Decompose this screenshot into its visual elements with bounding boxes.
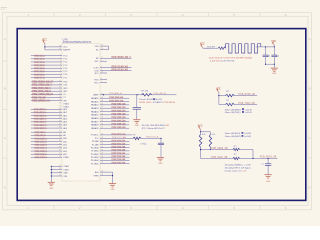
- svg-text:CLKI: CLKI: [94, 70, 99, 72]
- svg-text:2: 2: [101, 81, 102, 83]
- svg-text:AD3: AD3: [63, 117, 67, 120]
- svg-text:EA/VPP: EA/VPP: [63, 49, 71, 52]
- svg-text:INT1: INT1: [63, 91, 67, 93]
- power VCC: [42, 40, 47, 50]
- svg-text:INT0: INT0: [63, 88, 67, 90]
- svg-text:PCB_AD1_A: PCB_AD1_A: [34, 111, 47, 114]
- svg-text:P2.3/A11: P2.3/A11: [91, 150, 99, 153]
- svg-text:PCB_14_A: PCB_14_A: [34, 67, 45, 70]
- svg-text:21: 21: [101, 140, 103, 142]
- svg-text:B: B: [309, 87, 311, 91]
- wire stub TST0: [94, 78, 107, 81]
- svg-text:PCB_PSN_A: PCB_PSN_A: [35, 156, 48, 159]
- wire PA9: [91, 126, 129, 130]
- svg-text:P1.2: P1.2: [63, 62, 67, 64]
- wire P1.2: [31, 61, 67, 64]
- svg-text:VCC: VCC: [200, 44, 205, 46]
- svg-text:AREF: AREF: [94, 94, 100, 97]
- svg-text:36: 36: [59, 120, 61, 122]
- svg-text:L=1149: L=1149: [244, 136, 252, 138]
- svg-text:P2.4/A12: P2.4/A12: [91, 153, 99, 156]
- svg-text:PA3/AD3: PA3/AD3: [91, 107, 99, 110]
- wire A9: [31, 134, 66, 137]
- svg-text:PCB_CLK0_AB: PCB_CLK0_AB: [112, 65, 129, 68]
- wire A15: [31, 153, 67, 156]
- resistor R0 small: [205, 47, 226, 50]
- svg-text:PCB_16_A: PCB_16_A: [34, 73, 45, 76]
- svg-text:AD2: AD2: [63, 114, 67, 117]
- svg-text:PCB_P23_AB: PCB_P23_AB: [112, 149, 126, 152]
- svg-text:PCB_AD6_A: PCB_AD6_A: [34, 127, 47, 130]
- svg-text:PCB_CLK1_AB: PCB_CLK1_AB: [112, 68, 129, 71]
- svg-text:AD1: AD1: [63, 111, 67, 114]
- svg-text:10k 10R 10kR NPN S805 x2R: 10k 10R 10kR NPN S805 x2R: [142, 125, 170, 127]
- node note2: [142, 125, 170, 130]
- svg-text:PCB_15_A: PCB_15_A: [34, 70, 45, 73]
- svg-text:PCB_WRD0_AB: PCB_WRD0_AB: [32, 99, 50, 102]
- svg-text:104: 104: [267, 56, 270, 58]
- wire CLKO: [93, 65, 131, 69]
- svg-text:30: 30: [101, 171, 103, 173]
- svg-text:VCC: VCC: [216, 88, 221, 90]
- wire stub NC2: [95, 72, 107, 75]
- svg-text:21: 21: [59, 131, 61, 133]
- svg-text:PCB_AD5_A: PCB_AD5_A: [34, 124, 47, 127]
- svg-text:T0: T0: [63, 94, 65, 96]
- svg-text:2.2uF 25V 0.1uF X7R 5%: 2.2uF 25V 0.1uF X7R 5%: [210, 61, 235, 63]
- svg-text:VCC: VCC: [271, 41, 276, 43]
- svg-text:P1.0: P1.0: [63, 55, 67, 57]
- wire SDA: [200, 147, 233, 150]
- svg-text:3: 3: [60, 61, 61, 63]
- svg-text:PCB_AD4_A: PCB_AD4_A: [34, 121, 47, 124]
- svg-text:VCC: VCC: [198, 125, 203, 127]
- wire PSEN: [93, 172, 113, 183]
- svg-text:10: 10: [59, 80, 61, 82]
- svg-text:33: 33: [101, 120, 103, 122]
- wire SCL: [201, 156, 233, 159]
- svg-text:30: 30: [101, 48, 103, 50]
- svg-text:25: 25: [59, 143, 61, 145]
- svg-text:23: 23: [101, 137, 103, 139]
- wire PA1: [91, 99, 129, 103]
- svg-text:PA9/AD9: PA9/AD9: [91, 127, 99, 130]
- wire A14: [31, 150, 67, 153]
- wire A13: [31, 146, 67, 149]
- svg-text:U?A: U?A: [63, 38, 68, 42]
- svg-text:1: 1: [60, 54, 61, 56]
- resistor R5: [233, 146, 253, 159]
- wire ALE: [95, 171, 112, 174]
- power VCC: [198, 125, 211, 134]
- svg-text:35: 35: [59, 117, 61, 119]
- svg-text:VCC: VCC: [63, 47, 68, 49]
- wire: [265, 64, 275, 68]
- svg-text:32: 32: [101, 123, 103, 125]
- svg-text:PCB_A15_A: PCB_A15_A: [35, 153, 48, 156]
- svg-text:9: 9: [101, 60, 102, 62]
- svg-text:PA7/AD7: PA7/AD7: [91, 120, 99, 123]
- svg-text:PCB_13_A: PCB_13_A: [34, 64, 45, 67]
- capacitor C5: [140, 138, 164, 157]
- svg-text:GND: GND: [49, 188, 54, 190]
- svg-text:PCB_AD3_A: PCB_AD3_A: [34, 117, 47, 120]
- svg-text:38: 38: [59, 127, 61, 129]
- svg-text:PCB_T0_AB: PCB_T0_AB: [32, 96, 46, 99]
- wire: [256, 46, 275, 47]
- svg-text:PCB_SCL0_AB: PCB_SCL0_AB: [211, 156, 228, 159]
- wire P2.7: [91, 161, 130, 165]
- wire P2.4: [91, 152, 130, 156]
- wire P0.2: [31, 114, 67, 117]
- svg-text:GND: GND: [158, 163, 163, 165]
- svg-text:13: 13: [59, 90, 61, 92]
- svg-text:A13: A13: [63, 147, 66, 150]
- svg-text:PC0/SCL: PC0/SCL: [91, 135, 99, 137]
- svg-text:P1.6: P1.6: [63, 74, 67, 76]
- wire P2.6: [91, 158, 130, 162]
- wire P3.2: [31, 87, 68, 90]
- wire P3.5: [31, 96, 66, 99]
- svg-text:P2.6/A14: P2.6/A14: [91, 159, 99, 162]
- svg-text:PA8/AD8: PA8/AD8: [91, 124, 99, 127]
- svg-text:PCB_PC1_AB: PCB_PC1_AB: [112, 136, 126, 139]
- svg-text:8: 8: [60, 76, 61, 78]
- wire P1.3: [31, 64, 67, 67]
- svg-text:27: 27: [101, 159, 103, 161]
- svg-text:A12: A12: [63, 144, 66, 147]
- svg-text:31: 31: [101, 127, 103, 129]
- svg-text:22: 22: [101, 143, 103, 145]
- node LED note: [139, 98, 175, 104]
- wire P0.4: [31, 120, 67, 123]
- capacitor C1: [263, 47, 270, 64]
- svg-text:PCB_PA9_AB: PCB_PA9_AB: [112, 126, 126, 129]
- svg-text:10mm LED(YEL): 10mm LED(YEL): [225, 112, 241, 114]
- svg-text:4.7k: 4.7k: [212, 134, 216, 136]
- wire stub TST1: [94, 81, 107, 84]
- wire PA0: [91, 96, 129, 100]
- capacitor C4: [133, 95, 141, 120]
- svg-text:A9: A9: [63, 134, 65, 137]
- wire P0.6: [31, 127, 67, 130]
- svg-text:GND: GND: [63, 173, 68, 175]
- svg-text:PCB_A9_A: PCB_A9_A: [35, 134, 47, 137]
- wire P1.5: [31, 70, 67, 73]
- svg-text:4: 4: [60, 64, 61, 66]
- svg-text:4: 4: [101, 66, 102, 68]
- node gap pins: [59, 102, 69, 108]
- wire A10: [31, 137, 67, 140]
- svg-text:PCB_INT1_AB_Z: PCB_INT1_AB_Z: [32, 90, 51, 93]
- wire RD: [96, 56, 132, 60]
- svg-text:22: 22: [101, 133, 103, 135]
- resistor R1: [219, 91, 257, 97]
- svg-text:L=1149: L=1149: [245, 109, 253, 111]
- svg-text:11: 11: [59, 83, 61, 85]
- wire A16: [31, 156, 69, 159]
- svg-text:23: 23: [101, 146, 103, 148]
- svg-text:PCB_A8_A: PCB_A8_A: [35, 131, 47, 134]
- svg-text:P2.5/A13: P2.5/A13: [91, 156, 99, 159]
- svg-text:TST1: TST1: [94, 82, 99, 84]
- svg-text:PA6/AD6: PA6/AD6: [91, 117, 99, 120]
- wire P2.3: [91, 149, 130, 153]
- svg-text:10mm LED(WHT): 10mm LED(WHT): [225, 136, 242, 138]
- svg-text:24: 24: [101, 149, 103, 151]
- resistor FB meander: [226, 44, 261, 53]
- svg-text:PCB_11_A: PCB_11_A: [34, 58, 45, 61]
- svg-text:PA0/AD0: PA0/AD0: [91, 97, 99, 100]
- wire P1.4: [31, 67, 67, 70]
- resistor R4: [209, 134, 215, 150]
- svg-text:104: 104: [276, 56, 279, 58]
- wire A8: [31, 131, 66, 134]
- svg-text:GND: GND: [266, 181, 271, 183]
- svg-text:22: 22: [59, 134, 61, 136]
- svg-text:A11: A11: [63, 140, 66, 143]
- wire P0.5: [31, 124, 67, 127]
- ground: [133, 120, 140, 128]
- svg-text:29: 29: [101, 72, 103, 74]
- svg-text:40: 40: [59, 45, 61, 47]
- svg-text:34: 34: [59, 114, 61, 116]
- svg-text:PCB_AD0_A: PCB_AD0_A: [34, 108, 47, 111]
- node LED note5: [225, 132, 252, 138]
- ground: [271, 68, 278, 75]
- ground: [48, 182, 55, 190]
- wire P3.3: [31, 90, 68, 93]
- svg-text:29: 29: [59, 156, 61, 158]
- svg-text:36: 36: [101, 110, 103, 112]
- svg-text:VDD: VDD: [95, 46, 100, 48]
- svg-text:14: 14: [59, 93, 61, 95]
- power VCC: [200, 44, 210, 49]
- svg-text:10mm LED(BLU): 10mm LED(BLU): [225, 133, 241, 135]
- svg-text:23: 23: [59, 137, 61, 139]
- wire P2.0: [92, 139, 130, 143]
- svg-text:XTAL2: XTAL2: [63, 165, 69, 168]
- svg-text:P1.4: P1.4: [63, 68, 67, 70]
- svg-text:PA4/AD4: PA4/AD4: [91, 110, 99, 113]
- svg-text:PCB_P26_AB: PCB_P26_AB: [112, 158, 126, 161]
- svg-text:XTAL2: XTAL2: [63, 103, 69, 106]
- svg-text:PCB_P21_AB: PCB_P21_AB: [112, 142, 126, 145]
- svg-text:AD6: AD6: [63, 127, 67, 130]
- svg-text:NC2: NC2: [95, 73, 99, 75]
- svg-text:32: 32: [59, 108, 61, 110]
- svg-text:24: 24: [59, 140, 61, 142]
- capacitor C3: [261, 159, 271, 175]
- svg-text:5: 5: [101, 69, 102, 71]
- svg-text:PCB_PA6_AB: PCB_PA6_AB: [112, 116, 126, 119]
- svg-text:34: 34: [101, 117, 103, 119]
- wire P1.7: [31, 76, 67, 79]
- svg-text:P1.7: P1.7: [63, 77, 67, 79]
- svg-text:VCC: VCC: [42, 40, 47, 42]
- svg-text:P2.0/A8: P2.0/A8: [92, 140, 99, 143]
- wire PA5: [91, 113, 129, 117]
- wire: [45, 48, 71, 51]
- svg-text:PCB_CLK_A: PCB_CLK_A: [146, 135, 159, 138]
- wire PA7: [91, 119, 129, 123]
- ground: [265, 175, 272, 183]
- svg-text:C?: C?: [261, 164, 263, 166]
- wire stub NC: [96, 48, 107, 51]
- svg-text:5: 5: [60, 67, 61, 69]
- wire P1.0: [31, 54, 67, 57]
- svg-text:PCB_RXD0_AB: PCB_RXD0_AB: [239, 93, 256, 96]
- svg-text:18: 18: [59, 168, 61, 170]
- svg-text:PCB_AD2_A: PCB_AD2_A: [34, 114, 47, 117]
- svg-text:4.7k: 4.7k: [202, 134, 206, 136]
- wire P3.0: [31, 80, 68, 83]
- svg-text:39: 39: [101, 45, 103, 47]
- wire P3.4: [31, 93, 66, 96]
- svg-text:A14: A14: [63, 150, 66, 153]
- svg-text:PCB_PA2_AB: PCB_PA2_AB: [112, 103, 126, 106]
- svg-text:PCB_ARF_A: PCB_ARF_A: [109, 92, 122, 95]
- svg-text:P2.2/A10: P2.2/A10: [91, 146, 99, 149]
- wire stub VDD: [95, 45, 107, 48]
- svg-text:A8: A8: [63, 131, 65, 134]
- svg-text:P2.7/A15: P2.7/A15: [91, 162, 99, 165]
- wire PA6: [91, 116, 129, 120]
- svg-text:B: B: [4, 87, 6, 91]
- svg-text:PCB_P20_AB: PCB_P20_AB: [112, 139, 126, 142]
- IC U1 microcontroller: [62, 38, 100, 181]
- wire A12: [31, 143, 67, 146]
- wire GND trunk left: [51, 165, 69, 182]
- svg-text:10k pullup SDA/SCL + 1.5nF: 10k pullup SDA/SCL + 1.5nF: [225, 163, 252, 166]
- svg-text:C? 30p: C? 30p: [140, 143, 146, 145]
- svg-text:NOTE: LED+- POLARITY PCB SILK: NOTE: LED+- POLARITY PCB SILK A: [139, 101, 175, 104]
- svg-text:CLKO: CLKO: [93, 67, 99, 69]
- resistor R3: [199, 134, 205, 159]
- wire PA3: [91, 106, 129, 110]
- node note4: [225, 163, 252, 172]
- svg-text:PCB_A12_A: PCB_A12_A: [35, 144, 48, 147]
- wire AREF net: [94, 92, 177, 96]
- svg-text:PCB_PA5_AB: PCB_PA5_AB: [112, 113, 126, 116]
- wire stub RST: [95, 60, 107, 63]
- svg-text:PA1/AD1: PA1/AD1: [91, 100, 99, 103]
- wire PC0: [91, 133, 133, 137]
- svg-text:PCB_PA1_AB: PCB_PA1_AB: [109, 99, 123, 102]
- svg-text:L=1149: L=1149: [245, 112, 253, 114]
- resistor R6: [233, 154, 278, 160]
- wire A11: [31, 140, 67, 143]
- wire P2.1: [92, 142, 130, 146]
- svg-text:R?: R?: [133, 135, 135, 137]
- svg-text:P1.3: P1.3: [63, 65, 67, 67]
- svg-text:PCB_LED_A: PCB_LED_A: [154, 92, 167, 95]
- svg-text:AD0: AD0: [63, 108, 67, 111]
- svg-text:37: 37: [101, 107, 103, 109]
- svg-text:18: 18: [59, 102, 61, 104]
- node power note: [209, 56, 252, 62]
- capacitor C2: [271, 47, 278, 64]
- node LED note3: [225, 108, 253, 114]
- svg-text:PCB_TXD0_AB: PCB_TXD0_AB: [239, 102, 256, 105]
- svg-text:AT89C52/AT89S52-DIP40 M: AT89C52/AT89S52-DIP40 M: [63, 41, 92, 44]
- svg-text:PSEN: PSEN: [93, 175, 99, 177]
- svg-text:PCB_PC0_AB: PCB_PC0_AB: [112, 133, 127, 136]
- resistor R7: [141, 90, 166, 96]
- svg-text:7: 7: [60, 73, 61, 75]
- svg-text:28: 28: [101, 162, 103, 164]
- svg-text:PCB_12_A: PCB_12_A: [34, 61, 45, 64]
- svg-text:PCB_RXD0_AB_Z1: PCB_RXD0_AB_Z1: [32, 81, 54, 84]
- wire P2.5: [91, 155, 130, 159]
- svg-text:PCB_P25_AB: PCB_P25_AB: [112, 155, 126, 158]
- wire PA4: [91, 109, 129, 113]
- svg-text:T1: T1: [63, 97, 65, 99]
- svg-text:6: 6: [60, 70, 61, 72]
- svg-text:1: 1: [101, 78, 102, 80]
- power VCC: [271, 41, 276, 47]
- svg-text:XTAL1: XTAL1: [63, 168, 69, 171]
- svg-text:GND: GND: [272, 73, 277, 75]
- wire PA8: [91, 123, 129, 127]
- svg-text:PSEN: PSEN: [63, 157, 69, 159]
- resistor R8: [133, 135, 162, 140]
- svg-text:PCB_17_A: PCB_17_A: [34, 76, 45, 79]
- svg-text:15: 15: [59, 96, 61, 98]
- wire P1.1: [31, 57, 67, 60]
- svg-text:JP2: 2.54mm HDR 1x4 P: JP2: 2.54mm HDR 1x4 P: [142, 128, 165, 130]
- wire P0.3: [31, 117, 67, 120]
- wire P2.2: [91, 146, 130, 150]
- svg-text:R? 470: R? 470: [141, 90, 149, 92]
- svg-text:P1.5: P1.5: [63, 71, 67, 73]
- power VCC: [216, 88, 221, 104]
- wire P3.1: [31, 83, 68, 86]
- svg-text:39: 39: [101, 100, 103, 102]
- svg-text:38: 38: [101, 103, 103, 105]
- wire P0.1: [31, 111, 67, 114]
- svg-text:33: 33: [59, 111, 61, 113]
- svg-text:PC1: PC1: [95, 138, 99, 140]
- svg-text:17: 17: [59, 165, 61, 167]
- wire CLK net: [95, 136, 133, 140]
- wire P1.6: [31, 73, 67, 76]
- svg-text:PCB_P22_AB: PCB_P22_AB: [112, 146, 126, 149]
- svg-text:PCB_PA3_AB: PCB_PA3_AB: [112, 106, 126, 109]
- svg-text:P1.1: P1.1: [63, 59, 67, 61]
- svg-text:31: 31: [59, 48, 61, 50]
- svg-text:27: 27: [59, 150, 61, 152]
- svg-text:GND: GND: [110, 189, 115, 191]
- svg-text:TXD: TXD: [63, 85, 67, 87]
- svg-text:PCB_TCK0_AB_Z1: PCB_TCK0_AB_Z1: [32, 93, 54, 96]
- svg-text:26: 26: [59, 146, 61, 148]
- svg-text:AD4: AD4: [63, 121, 67, 124]
- svg-text:DC5V IN 4.5V~5.5V (TYP 5.0V) R: DC5V IN 4.5V~5.5V (TYP 5.0V) REG 100mA: [209, 56, 252, 59]
- svg-text:10mm LED(RED): 10mm LED(RED): [225, 109, 241, 111]
- svg-text:PCB_PA0_AB: PCB_PA0_AB: [109, 96, 123, 99]
- svg-text:PA2/AD2: PA2/AD2: [91, 104, 99, 107]
- svg-text:PCB_SDA0_AB: PCB_SDA0_AB: [211, 147, 228, 150]
- svg-text:16: 16: [59, 99, 61, 101]
- svg-text:19: 19: [59, 171, 61, 173]
- wire: [45, 45, 68, 48]
- wire PA2: [91, 103, 129, 107]
- svg-text:AD5: AD5: [63, 124, 67, 127]
- svg-text:12: 12: [59, 87, 61, 89]
- svg-text:PCB_10_A: PCB_10_A: [34, 55, 45, 58]
- svg-text:PA5/AD5: PA5/AD5: [91, 114, 99, 117]
